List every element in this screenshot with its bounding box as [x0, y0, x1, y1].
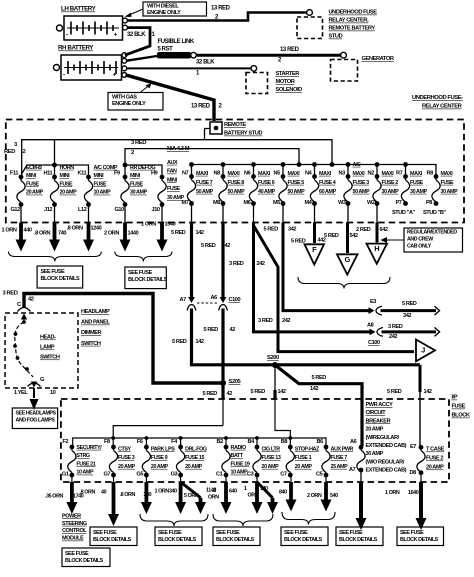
svg-text:SEE FUSE: SEE FUSE	[284, 530, 308, 536]
svg-text:W2: W2	[367, 200, 375, 206]
svg-text:142: 142	[278, 389, 286, 395]
svg-text:3 RED: 3 RED	[131, 140, 146, 146]
svg-text:1 ORN: 1 ORN	[2, 228, 17, 234]
svg-text:FUSE: FUSE	[167, 186, 181, 192]
svg-text:R8: R8	[427, 171, 434, 177]
svg-text:C100: C100	[229, 297, 241, 303]
fuse AUX PWR (B6/C5)	[316, 439, 354, 478]
svg-text:50 AMP: 50 AMP	[353, 189, 371, 195]
svg-text:MAXI: MAXI	[382, 171, 395, 177]
svg-text:440: 440	[24, 228, 32, 234]
fuse MAXI FUSE 8 (N8/M8)	[213, 171, 245, 207]
svg-text:P7: P7	[396, 200, 402, 206]
svg-text:A8: A8	[367, 323, 374, 329]
svg-text:2: 2	[131, 150, 134, 156]
fuse risers	[145, 438, 147, 447]
fuse T CASE FUSE 2 (E7/D8)	[410, 444, 445, 476]
box SEE FUSE BLOCK DETAILS (park/drl)	[155, 527, 202, 546]
note box: WITH DIESEL ENGINE ONLY	[125, 2, 207, 17]
brace under F G H connectors	[298, 277, 390, 289]
svg-text:F8: F8	[104, 439, 110, 445]
svg-text:SEE FUSE: SEE FUSE	[41, 269, 66, 275]
svg-text:MINI: MINI	[26, 173, 37, 179]
svg-text:FUSE 7: FUSE 7	[196, 180, 213, 186]
wire 5 RED 442 (maxi fuse 4 to F)	[291, 204, 326, 245]
svg-text:FAN: FAN	[167, 169, 177, 175]
svg-text:840: 840	[279, 489, 287, 495]
svg-text:FUSE: FUSE	[441, 180, 455, 186]
svg-text:AND FOG LAMPS: AND FOG LAMPS	[16, 418, 56, 424]
box SEE FUSE BLOCK DETAILS (power steering)	[62, 548, 110, 567]
bus E1 (42 feed)	[113, 426, 223, 447]
svg-text:.8 ORN: .8 ORN	[67, 226, 84, 232]
svg-text:N6: N6	[244, 171, 251, 177]
box SEE FUSE BLOCK DETAILS (stop/aux)	[281, 527, 328, 546]
svg-text:SEE FUSE: SEE FUSE	[216, 530, 240, 536]
svg-text:3 RED: 3 RED	[229, 261, 244, 267]
svg-text:FUSE: FUSE	[130, 181, 144, 187]
svg-text:-: -	[63, 72, 65, 79]
wire 1 ORN (stop-haz fuse)	[286, 475, 297, 512]
svg-text:CONTROL: CONTROL	[62, 528, 87, 534]
labels 5 RED 42 below connector	[204, 327, 236, 333]
svg-text:FUSE: FUSE	[410, 180, 424, 186]
svg-text:M6: M6	[244, 200, 251, 206]
svg-text:G: G	[345, 255, 351, 264]
svg-text:AUX: AUX	[167, 160, 178, 166]
svg-text:A7: A7	[349, 467, 356, 473]
svg-text:G12: G12	[11, 207, 21, 213]
svg-text:SEE FUSE: SEE FUSE	[400, 530, 424, 536]
headlamp switch wiper	[13, 320, 33, 377]
svg-text:REMOTE BATTERY: REMOTE BATTERY	[329, 26, 376, 32]
wire 5 ORN 1140 (drl-fog branch)	[181, 482, 217, 514]
svg-text:MAXI: MAXI	[196, 171, 209, 177]
svg-text:J10: J10	[152, 207, 160, 213]
svg-text:60 AMP: 60 AMP	[319, 189, 337, 195]
wire 840 (cig ltr branch)	[257, 482, 287, 514]
svg-text:240: 240	[144, 492, 152, 498]
svg-text:REGULAR/EXTENDED: REGULAR/EXTENDED	[407, 230, 457, 236]
svg-text:5 RED: 5 RED	[203, 391, 218, 397]
svg-text:142: 142	[424, 389, 432, 395]
svg-text:C5: C5	[316, 472, 323, 478]
wire 5 RED 542 (A/C maxi fuse 3 to G)	[324, 204, 358, 254]
svg-text:N/A 4.3 M: N/A 4.3 M	[167, 146, 190, 152]
svg-text:FUSE 5: FUSE 5	[288, 180, 305, 186]
svg-text:BLOCK DETAILS: BLOCK DETAILS	[128, 277, 167, 283]
fuse SECURITY/ (F2/G1)	[62, 439, 102, 478]
svg-text:AND PANEL: AND PANEL	[81, 320, 110, 326]
wire 2 ORN 540 (aux pwr fuse)	[307, 475, 338, 512]
svg-text:SEE FUSE: SEE FUSE	[128, 270, 153, 276]
fuse RR DEFOG (F9/G10)	[114, 165, 155, 213]
labels 5 RED 142 below connector	[172, 339, 204, 345]
svg-text:BLOCK DETAILS: BLOCK DETAILS	[400, 537, 439, 543]
connector F triangle	[305, 244, 325, 264]
bus E2 (fuse row bus)	[73, 436, 326, 447]
wire 5 RED 42 (maxi fuse 8 to S205)	[201, 204, 230, 384]
svg-text:A6: A6	[211, 295, 218, 301]
svg-text:FUSE 8: FUSE 8	[228, 180, 245, 186]
wire: 13 RED to generator	[197, 47, 341, 64]
wire 2 RED 642 (maxi fuse 2 to H)	[356, 204, 388, 243]
svg-text:SWITCH: SWITCH	[81, 341, 101, 347]
svg-text:MAXI: MAXI	[288, 171, 301, 177]
svg-text:N8: N8	[214, 171, 221, 177]
svg-text:FUSE 9: FUSE 9	[151, 455, 168, 461]
box SEE FUSE BLOCK DETAILS (breaker)	[336, 527, 383, 546]
connector H triangle	[367, 244, 388, 264]
svg-text:A/C: A/C	[353, 162, 362, 168]
svg-text:2 ORN: 2 ORN	[307, 493, 322, 499]
svg-text:5 RED: 5 RED	[402, 301, 417, 307]
svg-text:5 RED: 5 RED	[251, 389, 266, 395]
fuse A/C MAXI (N3/W3)	[338, 162, 370, 206]
svg-text:20 AMP: 20 AMP	[118, 464, 136, 470]
svg-text:5 RED: 5 RED	[324, 233, 339, 239]
fuse MAXI FUSE (R8/P8)	[426, 171, 458, 207]
svg-text:FUSE 2: FUSE 2	[426, 456, 443, 462]
bus A (3 RED feed)	[4, 140, 332, 177]
svg-text:T CASE: T CASE	[426, 447, 445, 453]
svg-text:CIRCUIT: CIRCUIT	[366, 410, 387, 416]
wire: 32 BLK to starter motor solenoid	[127, 59, 252, 76]
svg-text:5 RST: 5 RST	[158, 46, 174, 52]
svg-text:30 AMP: 30 AMP	[410, 189, 428, 195]
svg-text:RELAY CENTER,: RELAY CENTER,	[329, 18, 370, 24]
headlamp switch terminal C	[18, 308, 31, 323]
svg-text:G7: G7	[104, 472, 111, 478]
brace fuse details (stop/aux)	[282, 512, 335, 525]
svg-text:ENGINE ONLY: ENGINE ONLY	[112, 101, 146, 107]
svg-text:-: -	[66, 32, 68, 39]
svg-text:K11: K11	[78, 171, 87, 177]
svg-text:A7: A7	[180, 297, 187, 303]
svg-text:P8: P8	[426, 200, 432, 206]
svg-text:I/P: I/P	[452, 395, 458, 401]
generator terminal	[331, 52, 394, 81]
svg-text:20 AMP: 20 AMP	[151, 464, 169, 470]
splice S200	[267, 355, 279, 368]
svg-text:13 RED: 13 RED	[211, 5, 231, 11]
svg-text:D8: D8	[410, 470, 417, 476]
svg-text:BLOCK: BLOCK	[452, 413, 471, 419]
wire 5 RED 142 S200 to circuit breaker	[275, 365, 362, 446]
svg-text:GENERATOR: GENERATOR	[362, 56, 394, 62]
svg-text:MODULE: MODULE	[62, 536, 84, 542]
svg-text:RELAY CENTER: RELAY CENTER	[422, 104, 463, 110]
svg-text:FUSE: FUSE	[26, 181, 40, 187]
headlamp switch terminal G	[28, 377, 46, 387]
svg-text:20 AMP: 20 AMP	[426, 465, 444, 471]
svg-text:ENGINE ONLY: ENGINE ONLY	[147, 10, 181, 16]
svg-text:10 AMP: 10 AMP	[94, 190, 112, 196]
svg-text:G10: G10	[115, 207, 125, 213]
brace fuse details (radio/cig)	[213, 514, 273, 526]
svg-text:RED: RED	[4, 149, 15, 155]
battery B2 (RH BATTERY)	[54, 45, 127, 81]
svg-text:13 RED: 13 RED	[191, 103, 211, 109]
svg-text:20 AMP: 20 AMP	[262, 464, 280, 470]
circuit breaker PWR ACCY (A6/A7)	[349, 402, 407, 474]
svg-text:C100: C100	[368, 340, 380, 346]
svg-text:M5: M5	[273, 200, 280, 206]
svg-text:20 AMP: 20 AMP	[60, 190, 78, 196]
svg-text:5 ORN: 5 ORN	[184, 493, 199, 499]
svg-text:(W/REGULAR/: (W/REGULAR/	[366, 435, 400, 441]
wire: stud drop to bus D region	[191, 165, 193, 177]
svg-text:DIMMER: DIMMER	[81, 330, 102, 336]
svg-text:.8: .8	[212, 488, 216, 494]
svg-text:AUX PWR: AUX PWR	[331, 446, 354, 452]
svg-text:CTSY: CTSY	[118, 446, 132, 452]
wire .8 ORN 40 (ctsy fuse)	[80, 475, 120, 526]
fuse DRL-FOG (F4/G3)	[171, 439, 207, 478]
note box REGULAR/EXTENDED AND CREW CAB ONLY	[381, 228, 463, 252]
svg-text:20 AMP: 20 AMP	[295, 464, 313, 470]
wire 1 ORN 340 (drl-fog fuse)	[155, 475, 187, 514]
svg-text:5 RED: 5 RED	[204, 327, 219, 333]
svg-text:HEADLAMP: HEADLAMP	[81, 309, 110, 315]
wire 1 ORN 440 (ECM-B feed)	[2, 205, 32, 252]
svg-text:1: 1	[244, 486, 247, 492]
svg-text:FUSE 19: FUSE 19	[231, 461, 250, 467]
svg-text:42: 42	[227, 391, 233, 397]
wire: 13 RED from RH battery to remote battery stud	[126, 75, 223, 121]
svg-text:STUD "A": STUD "A"	[392, 210, 416, 216]
svg-text:1240: 1240	[91, 226, 102, 232]
svg-text:42: 42	[28, 297, 34, 303]
inline connector A8 (C100)	[367, 323, 403, 347]
wire: stud to bus A	[205, 129, 211, 140]
svg-text:N3: N3	[339, 171, 346, 177]
svg-text:5 RED: 5 RED	[201, 243, 216, 249]
wire 1 ORN 1540 (aux fan feed)	[141, 205, 176, 252]
brace for fuse block details left	[8, 252, 101, 262]
svg-text:N7: N7	[182, 171, 189, 177]
svg-text:5 RED: 5 RED	[172, 339, 187, 345]
svg-text:FUSE: FUSE	[60, 181, 74, 187]
fuse MAXI FUSE 5 (N5/M5)	[273, 171, 305, 207]
svg-text:FUSE 21: FUSE 21	[76, 461, 95, 467]
svg-text:20 AMP: 20 AMP	[26, 190, 44, 196]
box SEE FUSE BLOCK DETAILS (t-case)	[397, 527, 444, 546]
wire 2 ORN 540 (breaker output)	[356, 470, 367, 530]
svg-text:MAXI: MAXI	[353, 171, 366, 177]
svg-text:10 AMP: 10 AMP	[76, 470, 94, 476]
wire 1 ORN 1640 (t-case fuse output)	[385, 473, 427, 530]
box SEE FUSE BLOCK DETAILS (radio/cig)	[213, 527, 260, 546]
svg-text:F6: F6	[137, 439, 143, 445]
svg-text:HORN: HORN	[60, 165, 75, 171]
svg-text:M8: M8	[213, 200, 220, 206]
svg-text:FUSIBLE LINK: FUSIBLE LINK	[158, 39, 195, 45]
fuse CTSY (F8/G7)	[104, 439, 136, 478]
svg-text:PARK LPS: PARK LPS	[151, 446, 175, 452]
svg-text:BREAKER: BREAKER	[366, 418, 391, 424]
svg-text:E3: E3	[370, 299, 376, 305]
svg-text:J: J	[421, 345, 425, 354]
svg-text:FUSE: FUSE	[452, 404, 466, 410]
inline connector A6 (C100)	[197, 295, 241, 311]
fuse AUX (H9/J10)	[151, 160, 185, 213]
svg-text:POWER: POWER	[62, 513, 81, 519]
svg-text:F2: F2	[62, 439, 68, 445]
note box: WITH GAS ENGINE ONLY	[108, 83, 163, 110]
svg-text:50 AMP: 50 AMP	[288, 189, 306, 195]
svg-text:.8 ORN: .8 ORN	[120, 492, 136, 498]
svg-text:.8 ORN: .8 ORN	[34, 231, 51, 237]
svg-text:20 AMP: 20 AMP	[366, 427, 384, 433]
svg-text:MINI: MINI	[167, 177, 178, 183]
svg-text:342: 342	[288, 227, 296, 233]
bus: aux fan branch	[123, 163, 162, 177]
svg-text:AND CREW: AND CREW	[407, 237, 433, 243]
svg-text:BLOCK DETAILS: BLOCK DETAILS	[158, 537, 197, 543]
svg-text:.8 ORN: .8 ORN	[80, 489, 96, 495]
svg-text:MAXI: MAXI	[319, 171, 332, 177]
svg-text:142: 142	[196, 230, 204, 236]
wire: H11 riser	[54, 140, 56, 177]
svg-text:WITH GAS: WITH GAS	[112, 95, 137, 101]
fuse RADIO (B2/C1)	[216, 439, 250, 478]
svg-text:ORN: ORN	[208, 494, 219, 500]
svg-text:MAXI: MAXI	[410, 171, 423, 177]
exit arrow 242	[435, 327, 440, 336]
fusible link 5 RST	[126, 39, 196, 61]
box SEE FUSE BLOCK DETAILS (ctsy)	[90, 527, 137, 546]
svg-text:ORN: ORN	[248, 492, 259, 498]
svg-text:30 AMP: 30 AMP	[366, 451, 384, 457]
wire 5 RED 142 (maxi fuse 7 to S200)	[171, 204, 420, 365]
svg-text:A6: A6	[350, 439, 357, 445]
svg-text:EXTENDED CAB): EXTENDED CAB)	[366, 443, 407, 449]
svg-text:1640: 1640	[408, 490, 419, 496]
svg-text:J12: J12	[44, 207, 52, 213]
svg-text:MAXI: MAXI	[258, 171, 271, 177]
wire 5 RED 42 S205 to I/P bus	[203, 383, 233, 426]
svg-text:L12: L12	[78, 207, 87, 213]
svg-text:640: 640	[229, 488, 237, 494]
svg-text:32 BLK: 32 BLK	[127, 32, 146, 38]
svg-text:ECM-B: ECM-B	[26, 165, 42, 171]
battery B1 (LH BATTERY)	[57, 6, 128, 41]
svg-text:3 RED: 3 RED	[388, 324, 403, 330]
svg-text:LH BATTERY: LH BATTERY	[61, 6, 97, 13]
svg-text:M7: M7	[182, 200, 189, 206]
wire: 32 BLK jumper LH battery to RH battery	[125, 28, 156, 55]
svg-text:242: 242	[257, 261, 265, 267]
brace for fuse block details 2	[115, 252, 172, 262]
svg-text:SEE FUSE: SEE FUSE	[158, 530, 182, 536]
svg-text:50 AMP: 50 AMP	[228, 189, 246, 195]
svg-text:1440: 1440	[128, 231, 139, 237]
svg-text:FUSE 3: FUSE 3	[353, 180, 370, 186]
svg-text:C1: C1	[216, 472, 223, 478]
svg-text:2 RED: 2 RED	[356, 227, 371, 233]
svg-text:30 AMP: 30 AMP	[382, 189, 400, 195]
svg-text:DRL-FOG: DRL-FOG	[185, 446, 207, 452]
svg-text:SEE FUSE: SEE FUSE	[65, 551, 89, 557]
svg-text:5 RED: 5 RED	[171, 230, 186, 236]
wire 5 RED 142 to t-case fuse	[387, 365, 432, 447]
svg-text:142: 142	[196, 339, 204, 345]
fuse PARK LPS (F6/G5)	[136, 439, 175, 478]
svg-text:42: 42	[230, 327, 236, 333]
bus C (3 RED 2)	[125, 140, 299, 177]
fuse CIG LTR (B4/C3)	[247, 439, 281, 478]
svg-text:340: 340	[169, 488, 177, 494]
svg-text:LAMP: LAMP	[40, 345, 55, 351]
svg-text:BLOCK DETAILS: BLOCK DETAILS	[284, 537, 323, 543]
svg-text:2: 2	[23, 149, 26, 155]
wire 8 ORN 740 (horn feed)	[34, 205, 66, 252]
wire 5 RED 142 S200 to stop-haz fuse	[251, 365, 291, 446]
svg-text:SEE FUSE: SEE FUSE	[93, 530, 117, 536]
svg-text:FUSE 4: FUSE 4	[319, 180, 336, 186]
svg-text:CIG LTR: CIG LTR	[262, 446, 281, 452]
svg-text:REMOTE: REMOTE	[224, 122, 246, 128]
svg-text:S200: S200	[267, 355, 279, 361]
label: UNDERHOOD FUSE-RELAY CENTER	[412, 95, 463, 110]
splice S205	[220, 379, 242, 386]
svg-text:C7: C7	[280, 472, 287, 478]
svg-text:FUSE 15: FUSE 15	[185, 455, 204, 461]
svg-text:PWR ACCY: PWR ACCY	[366, 402, 394, 408]
svg-text:HEAD-: HEAD-	[40, 335, 56, 341]
svg-text:10: 10	[50, 390, 56, 396]
svg-text:BLOCK DETAILS: BLOCK DETAILS	[93, 537, 132, 543]
svg-text:(W/O REGULAR/: (W/O REGULAR/	[366, 459, 405, 465]
svg-text:242: 242	[389, 334, 397, 340]
wire .8 ORN 640 (radio fuse)	[208, 475, 237, 514]
svg-text:N2: N2	[368, 171, 375, 177]
svg-text:5 RED: 5 RED	[312, 375, 327, 381]
svg-text:B8: B8	[281, 439, 288, 445]
svg-text:FUSE 3: FUSE 3	[118, 455, 135, 461]
svg-text:C3: C3	[247, 472, 254, 478]
svg-text:40 AMP: 40 AMP	[258, 189, 276, 195]
exit arrow 342	[435, 306, 440, 315]
svg-text:SEE HEADLAMPS: SEE HEADLAMPS	[16, 411, 57, 417]
bus D (maxi fuse bus)	[189, 162, 436, 176]
box SEE FUSE BLOCK DETAILS 1	[37, 266, 83, 288]
wire 2 ORN 1440 (rr defog feed)	[104, 205, 139, 252]
svg-text:SOLENOID: SOLENOID	[276, 87, 303, 93]
inline connector A7 (C100)	[180, 297, 196, 311]
svg-text:UNDERHOOD FUSE: UNDERHOOD FUSE	[329, 10, 378, 16]
svg-text:3 RED: 3 RED	[258, 318, 273, 324]
svg-text:5 RED: 5 RED	[264, 227, 279, 233]
svg-text:MAXI: MAXI	[228, 171, 241, 177]
wire .8 ORN 240 (park lamps fuse)	[120, 475, 152, 514]
wire 5 RED 342 (maxi fuse 5 to E3)	[264, 204, 437, 311]
svg-text:STARTER: STARTER	[276, 71, 300, 77]
svg-text:1540: 1540	[165, 222, 176, 228]
wire 3 RED 242 branch to J	[254, 226, 415, 352]
svg-text:FUSE: FUSE	[94, 181, 108, 187]
svg-text:.35 ORN: .35 ORN	[45, 493, 64, 499]
svg-text:F11: F11	[10, 171, 18, 177]
svg-text:BLOCK DETAILS: BLOCK DETAILS	[216, 537, 255, 543]
svg-text:542: 542	[350, 233, 358, 239]
svg-text:13 RED: 13 RED	[280, 47, 300, 53]
svg-text:STUD: STUD	[329, 34, 343, 40]
svg-text:BATTERY STUD: BATTERY STUD	[224, 131, 262, 137]
svg-text:SWITCH: SWITCH	[40, 355, 60, 361]
svg-text:FUSE 6: FUSE 6	[258, 180, 275, 186]
